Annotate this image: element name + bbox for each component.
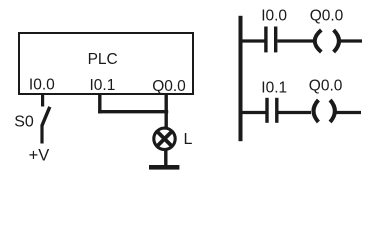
- pin label I0.1 (PLC input): [90, 77, 116, 94]
- rung 2 wire: rail to contact: [242, 111, 266, 114]
- svg-text:Q0.0: Q0.0: [309, 77, 343, 94]
- contact I0.1 (normally open): [265, 98, 278, 123]
- wire I0.1 to Q0.0 horizontal: [98, 110, 168, 113]
- wire switch to +V supply: [40, 126, 43, 144]
- PLC controller box U1: [19, 33, 193, 94]
- svg-text:+V: +V: [29, 146, 50, 164]
- label I0.1 (rung 2 contact): [261, 79, 287, 96]
- label L: [184, 131, 193, 148]
- ladder left power rail: [239, 16, 243, 141]
- label PLC: [88, 51, 118, 68]
- pin label Q0.0 (PLC output): [152, 78, 186, 95]
- coil Q0.0 (rung 2): [314, 100, 335, 122]
- rung 2 wire: contact to coil: [279, 111, 312, 114]
- svg-text:Q0.0: Q0.0: [152, 78, 186, 95]
- svg-text:I0.1: I0.1: [90, 77, 116, 94]
- contact I0.0 (normally open): [264, 27, 277, 53]
- pin label I0.0 (PLC input): [29, 76, 55, 93]
- rung 2 wire: coil to end: [337, 111, 362, 114]
- label I0.0 (rung 1 contact): [261, 7, 287, 24]
- wire I0.0 to switch S0: [41, 94, 44, 107]
- svg-text:S0: S0: [14, 113, 34, 130]
- ground (earth bar): [149, 165, 179, 170]
- svg-text:PLC: PLC: [88, 51, 118, 68]
- lamp L (indicator lamp): [154, 128, 175, 149]
- rung 1 wire: contact to coil: [278, 39, 314, 42]
- label Q0.0 (rung 2 coil): [309, 77, 343, 94]
- svg-text:I0.1: I0.1: [261, 79, 287, 96]
- label S0: [14, 113, 34, 130]
- wire I0.1 vertical drop: [98, 94, 101, 113]
- label +V supply: [29, 146, 50, 164]
- rung 1 wire: coil to end: [339, 39, 362, 42]
- svg-text:L: L: [184, 131, 193, 148]
- svg-text:I0.0: I0.0: [29, 76, 55, 93]
- coil Q0.0 (rung 1): [315, 30, 339, 52]
- svg-text:I0.0: I0.0: [261, 7, 287, 24]
- svg-text:Q0.0: Q0.0: [310, 8, 344, 25]
- wire Q0.0 vertical to lamp: [164, 94, 167, 129]
- rung 1 wire: rail to contact: [242, 39, 265, 42]
- switch S0 (open contact blade): [42, 107, 50, 126]
- wire lamp to ground: [164, 150, 167, 166]
- label Q0.0 (rung 1 coil): [310, 8, 344, 25]
